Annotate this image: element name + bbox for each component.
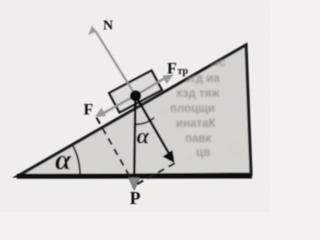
svg-text:тр: тр bbox=[178, 66, 189, 77]
svg-text:P: P bbox=[130, 188, 141, 208]
svg-text:инатаК: инатаК bbox=[176, 118, 216, 130]
angle arc at dot (between P and component) bbox=[136, 118, 154, 125]
applied force arrow F (gray, down-slope) bbox=[95, 96, 136, 118]
svg-text:хэд тяж: хэд тяж bbox=[176, 88, 220, 100]
inclined plane triangle bbox=[18, 45, 251, 176]
weight component arrow (black, perpendicular into slope) bbox=[136, 96, 175, 164]
dashed parallelogram side (from F tip to P tip) bbox=[97, 118, 135, 186]
angle arc at left vertex bbox=[73, 145, 81, 176]
svg-text:F: F bbox=[84, 102, 94, 119]
weight arrow P (vertical, gray arrowhead) bbox=[129, 96, 140, 191]
dashed parallelogram side (from normal-component tip to P tip) bbox=[135, 163, 175, 185]
svg-text:N: N bbox=[103, 19, 113, 34]
background paper bbox=[0, 0, 270, 212]
label F_tr (F with Cyrillic subscript) bbox=[167, 61, 189, 78]
svg-text:павк: павк bbox=[185, 133, 211, 145]
friction force arrow F_tr (gray, up-slope) bbox=[136, 75, 174, 96]
svg-text:F: F bbox=[167, 61, 177, 78]
svg-text:α: α bbox=[55, 144, 72, 176]
triangle mottle bbox=[0, 0, 270, 212]
svg-text:цв: цв bbox=[196, 147, 210, 159]
svg-text:α: α bbox=[137, 124, 151, 149]
node: force application point (dot on block) bbox=[130, 90, 141, 101]
svg-text:плоцщи: плоцщи bbox=[170, 103, 215, 115]
block on incline bbox=[109, 71, 162, 113]
base of triangle (thicker) bbox=[17, 174, 252, 179]
normal force arrow N (gray) bbox=[88, 26, 135, 96]
bleed-through text inside triangle bbox=[170, 57, 226, 159]
